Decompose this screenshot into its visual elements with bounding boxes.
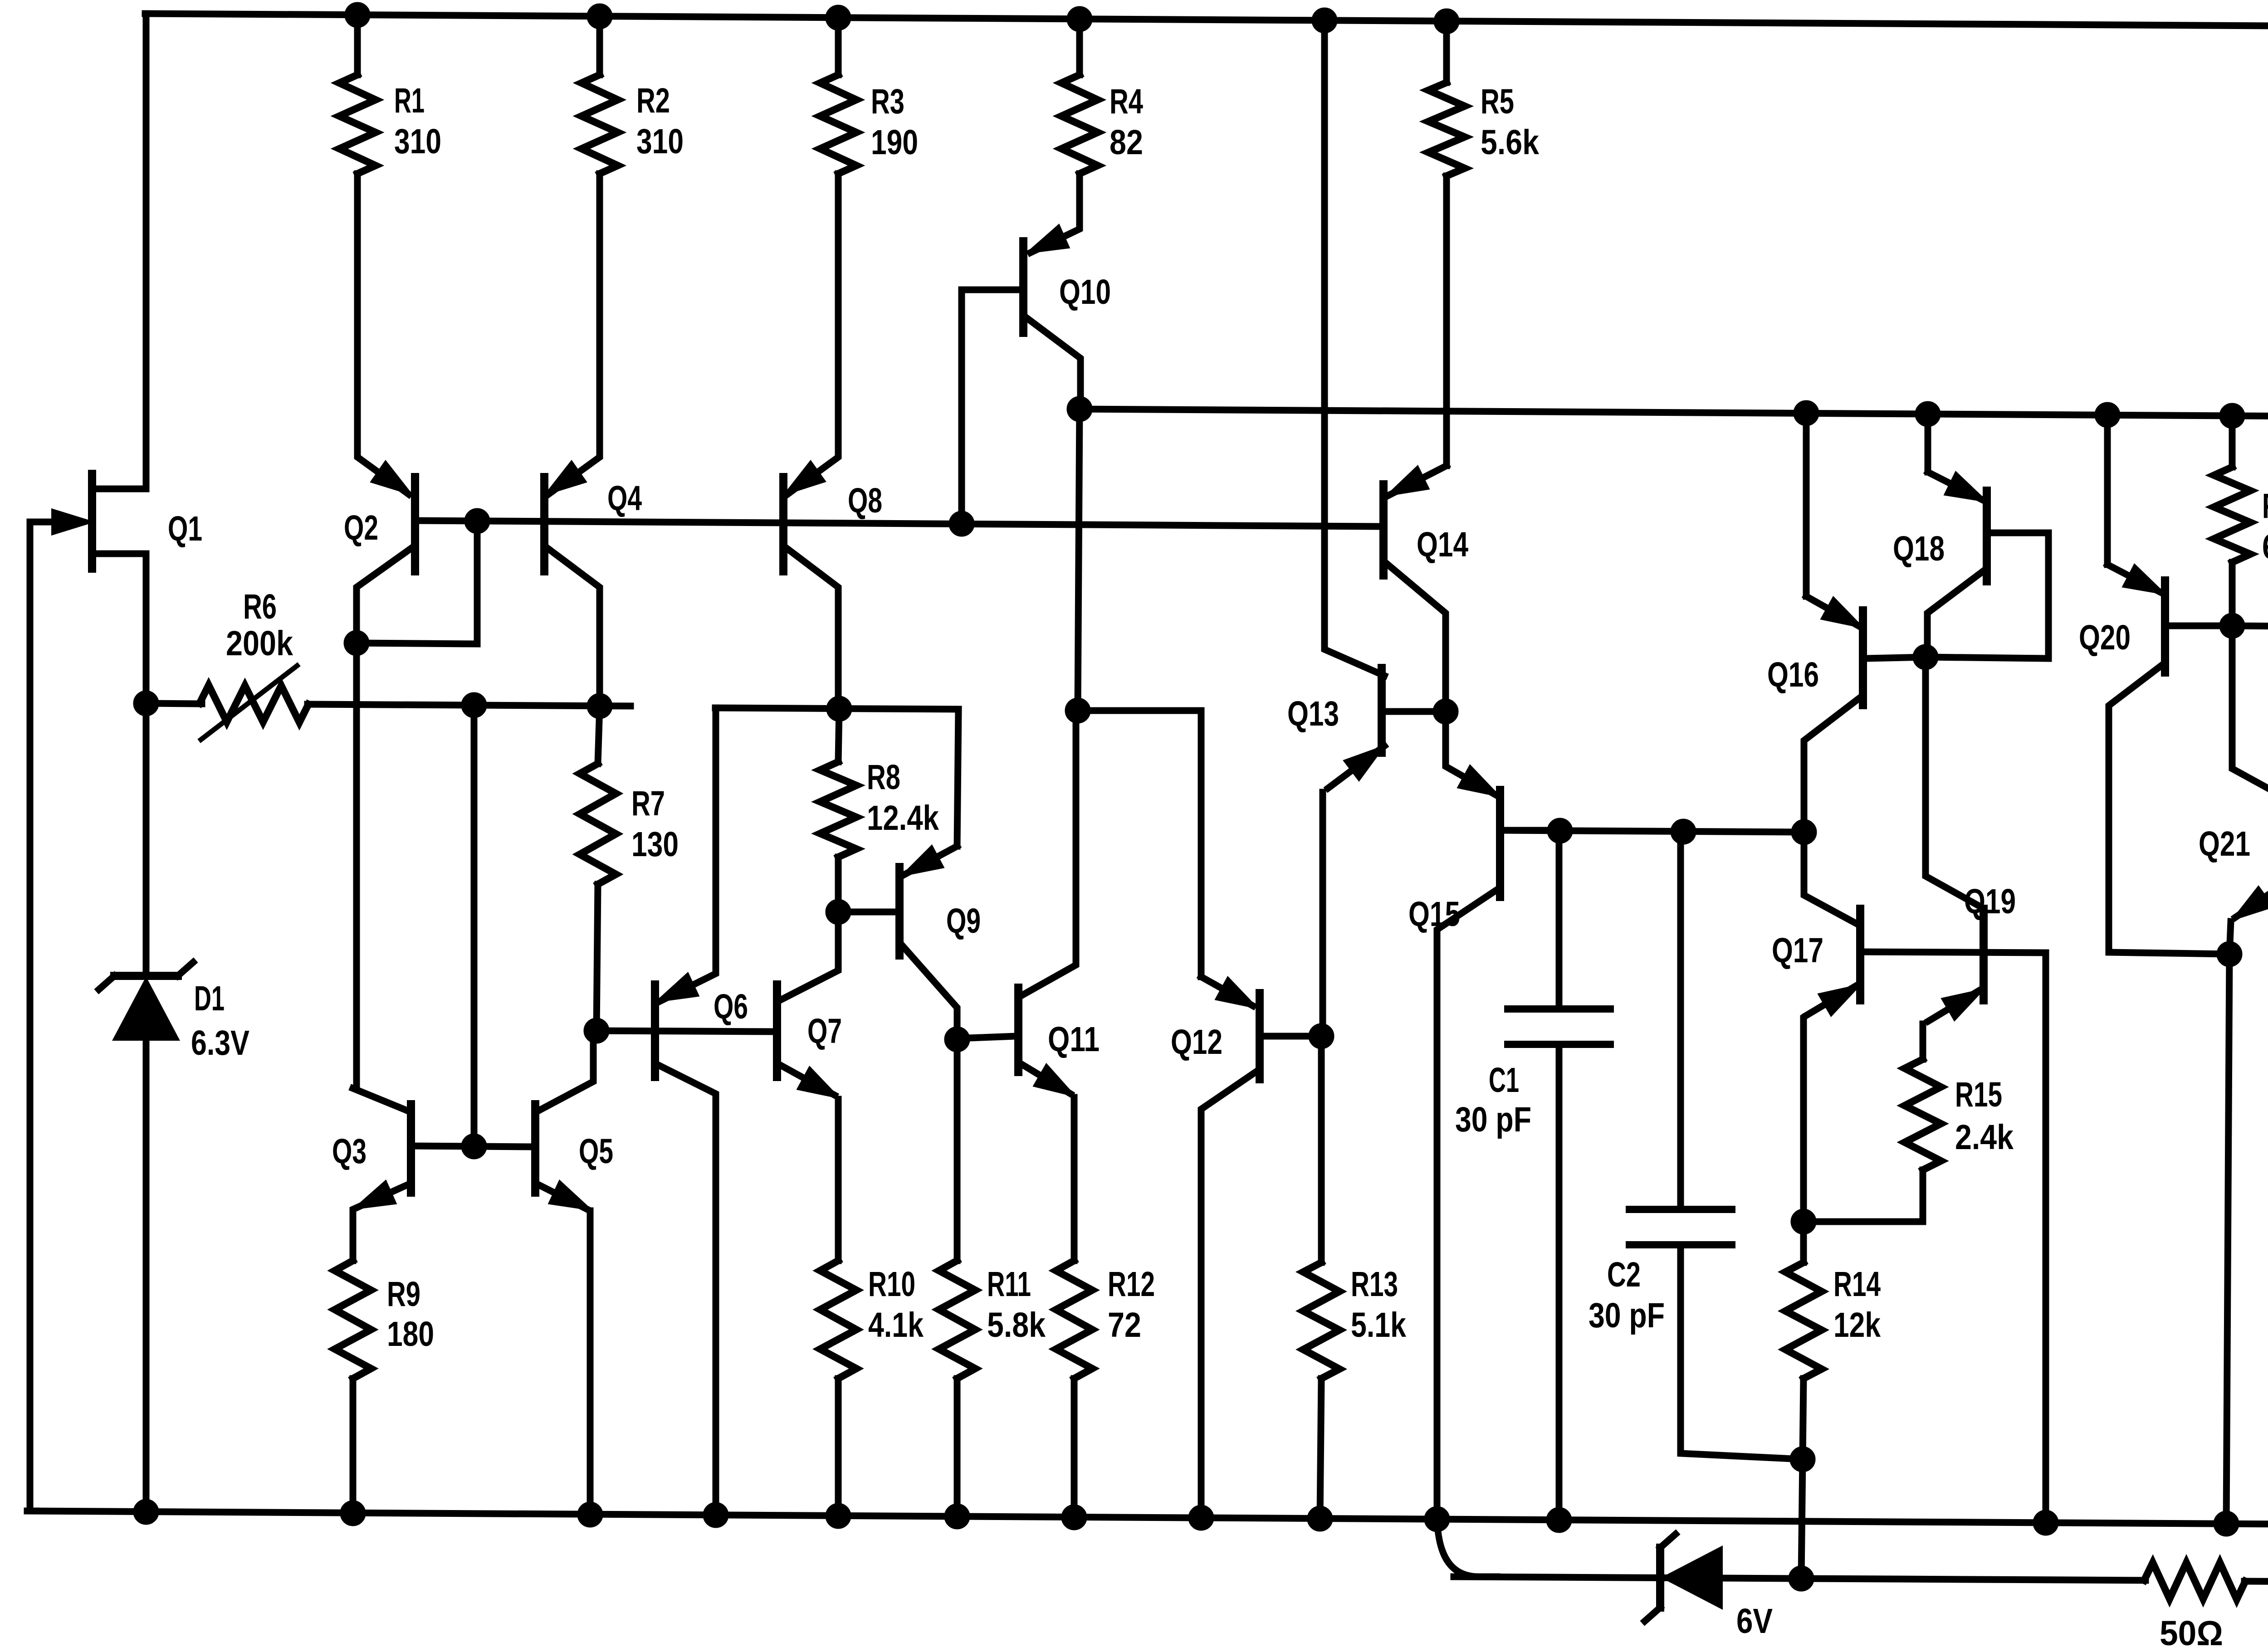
node R2 label	[636, 81, 684, 161]
svg-text:R15: R15	[1955, 1075, 2002, 1114]
node C2 label	[1589, 1255, 1665, 1335]
svg-text:Q19: Q19	[1964, 882, 2016, 921]
svg-text:30 pF: 30 pF	[1589, 1296, 1665, 1335]
svg-text:Q12: Q12	[1171, 1023, 1222, 1062]
svg-text:72: 72	[1108, 1306, 1141, 1345]
transistor Q10	[962, 174, 1080, 524]
svg-text:6V: 6V	[1736, 1602, 1773, 1641]
node Q5 label	[579, 1132, 613, 1171]
svg-text:Q3: Q3	[332, 1132, 367, 1171]
resistor R1 310	[339, 15, 376, 174]
node Q5 emitter bottom dot	[577, 1502, 603, 1527]
node Q10 collector dot	[1067, 396, 1092, 422]
transistor Q1	[30, 474, 146, 569]
resistor R16 6.7k	[2214, 416, 2250, 626]
svg-text:Q15: Q15	[1408, 895, 1460, 934]
node Q17 label	[1772, 931, 1823, 970]
node Q13 collector top dot	[1312, 8, 1337, 33]
svg-text:R13: R13	[1351, 1265, 1398, 1304]
transistor Q21	[2229, 626, 2268, 954]
svg-text:4.1k: 4.1k	[868, 1306, 924, 1345]
node Q4 label	[607, 479, 642, 518]
wire Q1 drain to top rail	[143, 14, 150, 489]
svg-text:Q5: Q5	[579, 1132, 613, 1171]
svg-text:C2: C2	[1607, 1255, 1641, 1294]
transistor Q7	[777, 912, 838, 1261]
diode D1 zener 6.3V	[99, 962, 193, 1039]
transistor Q9	[838, 846, 957, 1039]
wire ADJ line	[1454, 1577, 2268, 1587]
node Q21 V_OUT dot	[2214, 1511, 2239, 1536]
wire R6 rail	[148, 703, 631, 706]
resistor R14 12k	[1785, 1222, 1822, 1579]
capacitor C1 30pF	[1508, 831, 1610, 1520]
svg-text:R4: R4	[1110, 82, 1143, 121]
node rail905 Q20 dot	[2095, 402, 2120, 428]
node Q10 label	[1059, 273, 1111, 312]
svg-text:310: 310	[394, 122, 441, 161]
svg-text:Q4: Q4	[607, 479, 642, 518]
node R4 label	[1110, 82, 1143, 162]
wire R5 down to Q14	[1443, 176, 1450, 466]
node R8 label	[867, 758, 939, 838]
wire D1 column	[143, 703, 150, 1512]
transistor Q18	[1926, 472, 2048, 658]
svg-text:190: 190	[871, 123, 918, 162]
node Q11 base dot	[944, 1027, 970, 1052]
node R1 top dot	[345, 2, 370, 28]
wire left feedback vertical	[30, 522, 36, 1511]
svg-text:82: 82	[1110, 123, 1143, 162]
svg-text:Q10: Q10	[1059, 273, 1111, 312]
node Q21 label	[2199, 824, 2250, 863]
node C1 top dot	[1547, 818, 1573, 843]
svg-text:R11: R11	[987, 1265, 1031, 1304]
node Q9 label	[946, 901, 981, 940]
svg-text:50Ω: 50Ω	[2160, 1614, 2223, 1647]
node Q8 label	[848, 481, 882, 520]
wire Q17 collector up to rail905	[1803, 413, 1810, 596]
wire Q15 base rail	[1503, 830, 1804, 832]
svg-text:Q18: Q18	[1893, 529, 1945, 568]
wire ADJ curve from V_OUT	[1437, 1519, 1497, 1577]
node Q2 label	[344, 508, 378, 547]
wire Q20 emitter from rail	[2104, 415, 2111, 565]
svg-text:5.6k: 5.6k	[1481, 123, 1539, 162]
svg-text:Q2: Q2	[344, 508, 378, 547]
node Q17 collector dot	[1791, 819, 1817, 845]
svg-text:Q1: Q1	[168, 509, 202, 548]
node C2-R14 junction dot	[1790, 1447, 1815, 1472]
node R5 label	[1481, 82, 1539, 162]
svg-text:R5: R5	[1481, 82, 1514, 121]
node Q14 collector dot	[1433, 699, 1458, 724]
svg-text:Q7: Q7	[807, 1012, 842, 1051]
svg-text:R14: R14	[1833, 1265, 1881, 1304]
node R7 label	[631, 784, 679, 864]
transistor Q12	[1201, 977, 1321, 1518]
node C2 top dot	[1671, 819, 1696, 844]
node Q11 collector junction dot	[1065, 698, 1090, 723]
capacitor C3 5pF	[2232, 626, 2268, 838]
node R11 bottom dot	[944, 1504, 970, 1529]
node Q2 collector dot	[344, 630, 369, 656]
transistor Q5	[535, 1031, 593, 1515]
node 50ohm label	[2160, 1614, 2223, 1647]
svg-text:130: 130	[631, 825, 679, 864]
svg-text:Q11: Q11	[1048, 1020, 1100, 1059]
wire base rail Q2-Q14	[415, 521, 1382, 526]
node R6 rail mid dot	[461, 692, 487, 718]
svg-text:Q20: Q20	[2079, 618, 2131, 657]
wire base dot up to R6 rail	[471, 705, 478, 1146]
node R15 label	[1955, 1075, 2014, 1157]
svg-text:Q16: Q16	[1767, 655, 1819, 694]
node Q15 label	[1408, 895, 1460, 934]
node Q19 label	[1964, 882, 2016, 921]
diode 6V zener	[1645, 1534, 1721, 1621]
svg-text:Q13: Q13	[1287, 694, 1339, 733]
node Q12 collector bottom dot	[1188, 1505, 1214, 1530]
node R10 bottom dot	[826, 1503, 851, 1529]
svg-text:Q6: Q6	[714, 987, 748, 1026]
wire Q10 collector down	[1078, 409, 1080, 711]
node Q6 collector bottom dot	[703, 1502, 728, 1528]
wire Q18 emitter from rail	[1925, 414, 1931, 472]
wire Q2 collector-base tie	[357, 521, 477, 644]
node R16 bottom dot	[2219, 613, 2245, 638]
node Q12 base dot	[1309, 1023, 1334, 1049]
svg-text:R9: R9	[387, 1275, 420, 1314]
svg-text:30 pF: 30 pF	[1455, 1100, 1531, 1139]
svg-text:C1: C1	[1489, 1061, 1519, 1100]
resistor R11 5.8k	[939, 1039, 975, 1516]
resistor R5 5.6k	[1428, 21, 1465, 176]
node R8 bottom dot	[826, 899, 851, 925]
transistor Q2	[357, 174, 415, 643]
node R12 label	[1108, 1265, 1155, 1345]
svg-text:2.4k: 2.4k	[1955, 1118, 2014, 1157]
svg-text:6.7k: 6.7k	[2262, 527, 2268, 566]
resistor R13 5.1k	[1303, 1036, 1339, 1519]
resistor 50 ohm	[2144, 1563, 2245, 1599]
node Q13 label	[1287, 694, 1339, 733]
node Q3 base dot	[461, 1134, 487, 1159]
node Q16 base dot	[1913, 644, 1938, 670]
node R6 label	[226, 587, 293, 663]
transistor Q16	[1804, 596, 1926, 832]
resistor R15 2.4k	[1804, 1059, 1941, 1222]
node R13 label	[1351, 1265, 1406, 1345]
node Q12 label	[1171, 1023, 1222, 1062]
node R14 label	[1833, 1265, 1881, 1345]
node rail905 Q18 dot	[1915, 401, 1941, 427]
transistor Q3	[353, 1088, 411, 1261]
node C1 label	[1455, 1061, 1531, 1139]
wire Q6-Q7 base rail	[596, 1031, 777, 1032]
node Q15 collector bottom dot	[1424, 1506, 1450, 1532]
wire to Q12 emitter	[1078, 711, 1201, 977]
svg-text:D1: D1	[194, 979, 225, 1018]
resistor R2 310	[582, 16, 618, 174]
node R16 top dot	[2219, 403, 2245, 429]
transistor Q4	[544, 174, 600, 706]
wire Q17 base corner down	[2043, 953, 2049, 1523]
svg-text:5.8k: 5.8k	[987, 1306, 1046, 1345]
transistor Q17	[1804, 832, 2046, 1222]
svg-text:Q8: Q8	[848, 481, 882, 520]
node Q20 label	[2079, 618, 2131, 657]
wire staple right leg	[957, 709, 958, 846]
svg-text:Q9: Q9	[946, 901, 981, 940]
node Q7 label	[807, 1012, 842, 1051]
node R8 top dot	[826, 696, 852, 721]
svg-text:R3: R3	[871, 82, 904, 121]
node Q21 emitter dot	[2217, 941, 2242, 967]
node Q2 base dot	[464, 508, 490, 534]
node R5 top dot	[1434, 9, 1459, 34]
node C1 bottom dot	[1546, 1507, 1572, 1533]
resistor R7 130	[580, 706, 616, 1031]
node R11 label	[987, 1265, 1046, 1345]
resistor R4 82	[1061, 19, 1098, 174]
capacitor C2 30pF	[1629, 831, 1803, 1459]
wire Q1 source down	[143, 554, 150, 703]
resistor R10 4.1k	[820, 1261, 856, 1516]
transistor Q20	[2107, 565, 2232, 954]
node V_OUT D1 dot	[133, 1499, 159, 1525]
transistor Q15	[1437, 711, 1560, 1519]
svg-text:Q17: Q17	[1772, 931, 1823, 970]
node R3 label	[871, 82, 918, 162]
node D1 label	[191, 979, 249, 1062]
node Q6 label	[714, 987, 748, 1026]
resistor R6 200k	[200, 666, 308, 740]
wire second rail (Q10 collector bus)	[1079, 409, 2268, 418]
node Q16 label	[1767, 655, 1819, 694]
node R15 bottom dot	[1791, 1209, 1816, 1234]
node R10 label	[868, 1265, 924, 1345]
node R4 top dot	[1067, 6, 1092, 32]
node Q10 base dot	[949, 511, 974, 536]
svg-text:R7: R7	[631, 784, 665, 823]
resistor R12 72	[1056, 1261, 1092, 1517]
node Q14 label	[1417, 525, 1468, 564]
svg-text:R16: R16	[2262, 487, 2268, 526]
svg-text:R1: R1	[394, 81, 425, 120]
svg-text:R2: R2	[636, 81, 670, 120]
transistor Q11	[957, 711, 1076, 1261]
svg-text:R8: R8	[867, 758, 900, 797]
svg-text:R12: R12	[1108, 1265, 1155, 1304]
node ADJ zener dot	[1789, 1566, 1814, 1591]
node 6V label	[1736, 1602, 1773, 1641]
wire V_OUT bottom rail	[27, 1511, 2268, 1530]
node R6 rail left dot	[133, 691, 159, 716]
svg-text:12k: 12k	[1833, 1306, 1881, 1345]
svg-text:Q21: Q21	[2199, 824, 2250, 863]
svg-text:5.1k: 5.1k	[1351, 1306, 1406, 1345]
svg-text:R6: R6	[243, 587, 277, 626]
node Q1 label	[168, 509, 202, 548]
node R16 label	[2262, 487, 2268, 566]
transistor Q19	[1923, 657, 1984, 1059]
transistor Q8	[783, 174, 838, 709]
svg-text:180: 180	[387, 1315, 434, 1354]
transistor Q14	[1383, 466, 1447, 711]
node R3 top dot	[826, 5, 851, 30]
svg-text:R10: R10	[868, 1265, 915, 1304]
resistor R9 180	[335, 1261, 371, 1513]
node base line V_OUT dot	[2033, 1510, 2058, 1535]
transistor Q13	[1323, 20, 1446, 1036]
svg-text:6.3V: 6.3V	[191, 1023, 249, 1062]
wire Q2 collector down to Q3	[353, 643, 360, 1088]
wire Q21 emitter to V_OUT	[2226, 954, 2229, 1524]
svg-text:310: 310	[636, 122, 684, 161]
node rail905 Q16 dot	[1794, 400, 1819, 426]
resistor R8 12.4k	[820, 709, 856, 912]
node Q11 label	[1048, 1020, 1100, 1059]
wire R8 staple rail	[715, 708, 958, 709]
svg-text:200k: 200k	[226, 624, 293, 663]
node R14 ADJ dot	[1789, 1566, 1814, 1591]
svg-text:12.4k: 12.4k	[867, 799, 939, 838]
wire Q3-Q5 base rail	[411, 1146, 535, 1147]
node R13 bottom dot	[1307, 1506, 1333, 1531]
wire V_IN top rail	[145, 14, 2268, 31]
node R2 top dot	[587, 4, 612, 29]
transistor Q6	[655, 708, 716, 1515]
svg-text:Q14: Q14	[1417, 525, 1468, 564]
node R1 label	[394, 81, 441, 161]
node R7 bottom dot	[584, 1018, 609, 1043]
resistor R3 190	[820, 18, 856, 174]
node R12 bottom dot	[1061, 1505, 1087, 1530]
node R9 bottom dot	[340, 1501, 366, 1526]
node R9 label	[387, 1275, 434, 1354]
node Q18 label	[1893, 529, 1945, 568]
node R7 top dot	[587, 693, 612, 719]
node Q3 label	[332, 1132, 367, 1171]
